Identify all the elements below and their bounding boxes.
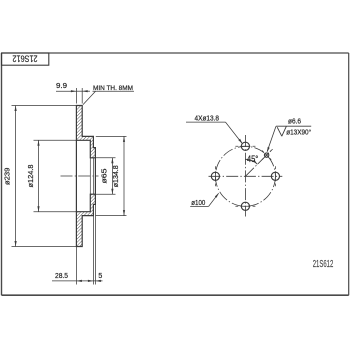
dim Ø134.8 [96, 135, 127, 137]
right view: bolt circle Ø100 (dash-dot) [215, 146, 275, 206]
svg-text:9.9: 9.9 [56, 83, 67, 90]
svg-text:21S612: 21S612 [13, 54, 38, 65]
boss face through bore [94, 158, 96, 194]
flange left face through bore [89, 158, 91, 194]
bolt hole Ø13.8 left [211, 172, 219, 180]
small hole Ø6.6 at 45deg [264, 153, 268, 157]
bolt hole Ø13.8 right [271, 172, 279, 180]
bolt hole Ø13.8 top [241, 142, 249, 150]
svg-text:5: 5 [98, 273, 102, 280]
part number box [2, 53, 49, 65]
dim 9.9 thickness [75, 88, 77, 104]
svg-text:ø65: ø65 [100, 169, 109, 184]
svg-text:4Xø13.8: 4Xø13.8 [195, 113, 220, 122]
leader MIN TH. 8MM [83, 91, 96, 104]
section centerline [61, 175, 99, 177]
bolt hole Ø13.8 bottom [241, 202, 249, 210]
svg-text:ø13X90°: ø13X90° [286, 128, 311, 136]
dim Ø124.8 [34, 139, 77, 141]
disc cross-section top half (hatched) [76, 106, 95, 158]
45deg radial centerline [245, 149, 272, 176]
vertical centerline [244, 135, 246, 217]
mounting face through bore [92, 158, 94, 194]
dim Ø65 [90, 157, 115, 159]
dim 28.5 and 5 [75, 247, 77, 285]
svg-text:ø100: ø100 [191, 200, 205, 207]
svg-text:21S612: 21S612 [313, 259, 334, 270]
dim Ø239 [12, 105, 77, 107]
leader Ø100 [190, 205, 208, 207]
leader 4XØ13.8 [186, 121, 226, 123]
svg-text:ø239: ø239 [3, 168, 12, 186]
svg-text:28.5: 28.5 [55, 273, 68, 280]
svg-text:ø134.8: ø134.8 [111, 165, 120, 187]
callout Ø6.6 / Ø13X90 [276, 125, 311, 127]
svg-text:ø124.8: ø124.8 [26, 165, 35, 188]
left face line through middle [75, 140, 77, 211]
horizontal centerline [209, 175, 283, 177]
svg-text:45°: 45° [247, 153, 259, 164]
disc cross-section bottom half (hatched) [76, 194, 95, 246]
svg-text:MIN TH. 8MM: MIN TH. 8MM [93, 85, 133, 92]
svg-text:ø6.6: ø6.6 [288, 119, 301, 126]
45deg angle arc [245, 159, 257, 164]
border frame [2, 52, 349, 54]
